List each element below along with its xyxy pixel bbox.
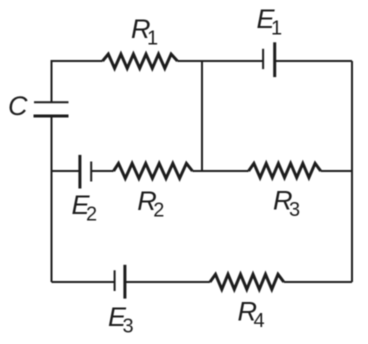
wire middle: R2 through node to R3 [192,170,248,172]
svg-text:E1: E1 [257,4,283,40]
wire bottom: E3 to R4 [125,281,210,283]
battery E1 (short plate left, long plate right) [262,49,264,69]
wire top: E1 to top-right corner [275,60,352,62]
wire right: top-right to bottom-right corner [351,61,353,282]
wire bottom: R4 to bottom-right corner [284,281,352,283]
svg-text:R4: R4 [238,297,265,333]
wire top: R1 to E1 short plate (through node at x=202) [177,60,263,62]
battery E2 (long plate left, short plate right) [78,155,81,189]
svg-text:E3: E3 [108,302,134,338]
resistor R4 [210,274,284,289]
wire middle: left wire to E2 [52,170,80,172]
resistor R1 [103,54,178,68]
svg-text:R3: R3 [273,186,300,222]
resistor R2 [114,163,193,178]
wire top: left corner to R1 [52,61,103,102]
wire middle: E2 to R2 [91,170,113,172]
svg-text:R2: R2 [137,186,164,222]
resistor R3 [249,163,321,177]
svg-text:E2: E2 [72,190,98,226]
wire middle: R3 to right wire [321,170,352,172]
wire bottom: left corner to E3 [52,281,115,283]
wire middle vertical: node on top wire down to middle wire [201,61,203,171]
battery E3 (short plate left, long plate right) [114,270,116,291]
wire left: capacitor to bottom-left corner [51,116,53,282]
svg-text:C: C [8,91,28,121]
svg-text:R1: R1 [131,14,158,50]
capacitor C on left branch [34,101,69,103]
